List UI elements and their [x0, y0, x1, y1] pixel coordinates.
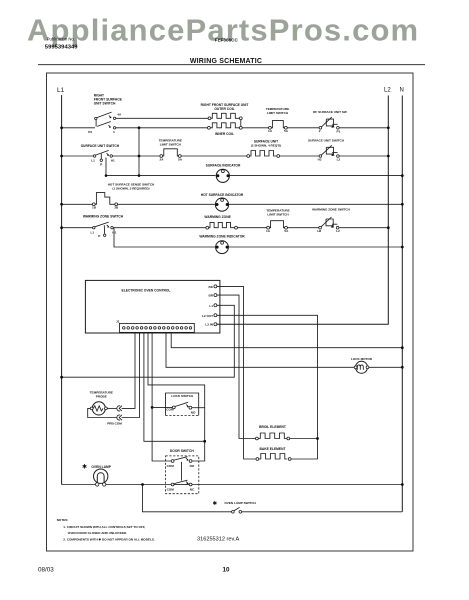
svg-text:OVEN LAMP SWITCH: OVEN LAMP SWITCH [224, 501, 256, 505]
wire row2 to limit switch [112, 155, 159, 157]
svg-text:P2: P2 [88, 130, 92, 134]
wire probe right [107, 407, 116, 409]
switch oven lamp switch S3 [213, 500, 257, 513]
wire row4b to N [228, 246, 402, 248]
svg-text:OUTER COIL: OUTER COIL [214, 107, 234, 111]
svg-text:4: 4 [113, 130, 115, 134]
heater RF surface unit inner coil [208, 123, 243, 136]
wire strip pin6 lock motor bus [166, 333, 354, 367]
svg-text:P: P [100, 163, 102, 167]
wire row1 upper to outer coil [116, 117, 209, 119]
node dot bottom bus left [141, 483, 144, 486]
switch RF surface unit switch (double pole) [88, 94, 122, 135]
node dot row1 x139 [138, 126, 141, 129]
node dot bus N [401, 346, 404, 349]
node dot L1 row3 [60, 203, 63, 206]
svg-text:L2: L2 [384, 88, 391, 94]
wire row4 to switch2 [287, 227, 319, 229]
lamp oven lamp DS1 [82, 464, 112, 487]
svg-text:WARMING ZONE SWITCH: WARMING ZONE SWITCH [312, 208, 351, 212]
svg-text:Publication No.: Publication No. [47, 37, 75, 42]
svg-text:SURFACE INDICATOR: SURFACE INDICATOR [206, 163, 241, 167]
svg-text:NO: NO [191, 410, 196, 414]
svg-text:LOCK MOTOR: LOCK MOTOR [351, 357, 373, 361]
node dot lock switch tap [151, 406, 154, 409]
node dot motor N [401, 366, 404, 369]
wire row2 to coil [181, 155, 247, 157]
svg-text:LOCK SWITCH: LOCK SWITCH [171, 394, 194, 398]
svg-text:L1: L1 [209, 304, 213, 308]
indicator surface indicator [206, 163, 241, 182]
wire probe left loop [88, 408, 117, 417]
svg-text:H1: H1 [111, 159, 115, 163]
wire row1 to L2 [339, 127, 388, 129]
switch warming zone switch (right) [312, 208, 351, 233]
svg-text:L2 OUT: L2 OUT [202, 314, 213, 318]
svg-text:BR: BR [209, 294, 214, 298]
svg-text:SURFACE UNIT SWITCH: SURFACE UNIT SWITCH [81, 144, 120, 148]
op-box electronic oven control U1 [85, 280, 220, 333]
wire strip pin3 to door no join [144, 333, 205, 441]
wire strip pin5 to lock and door com [152, 333, 171, 461]
heater bake element [256, 447, 291, 461]
wire row4b drop [114, 228, 215, 247]
heater broil element [256, 425, 290, 440]
svg-text:UNIT SWITCH: UNIT SWITCH [94, 101, 116, 105]
svg-text:L2: L2 [337, 157, 341, 161]
svg-text:(2 SHOWN, 4 REQ'D): (2 SHOWN, 4 REQ'D) [251, 144, 281, 148]
switch temperature limit switch row4 [266, 209, 290, 233]
svg-text:N: N [400, 88, 404, 94]
svg-text:BROIL ELEMENT: BROIL ELEMENT [259, 425, 286, 429]
svg-text:H1: H1 [112, 230, 116, 234]
switch surface unit switch row2 [81, 144, 120, 167]
motor lock motor M1 [351, 357, 373, 373]
wire lock no out [192, 407, 205, 409]
wire L1 pin to L1 rail [62, 305, 235, 377]
resistor temperature probe [90, 391, 123, 426]
svg-text:2. COMPONENTS WITH ✱ DO NOT: 2. COMPONENTS WITH ✱ DO NOT APPEAR ON AL… [63, 537, 155, 541]
svg-text:NC: NC [190, 488, 195, 492]
switch hot surface sense switch [92, 182, 155, 209]
wire row3 to indicator [118, 203, 216, 205]
wire row2 to switch2 [280, 155, 319, 157]
svg-text:WARMING ZONE INDICATOR: WARMING ZONE INDICATOR [199, 235, 245, 239]
switch RF surface unit sw [313, 110, 347, 133]
wire N rail [401, 96, 403, 512]
svg-text:COM: COM [167, 464, 175, 468]
svg-text:P1: P1 [337, 129, 341, 133]
svg-text:2: 2 [319, 129, 321, 133]
wire L2 OUT to elements common [217, 315, 318, 459]
svg-text:10: 10 [223, 567, 231, 574]
svg-text:INNER COIL: INNER COIL [215, 132, 234, 136]
wire junction drop x139 rows 1 to 2b [138, 128, 140, 176]
svg-text:OVEN DOOR CLOSED AND UNLOCKED.: OVEN DOOR CLOSED AND UNLOCKED. [68, 531, 127, 535]
svg-text:WIRING SCHEMATIC: WIRING SCHEMATIC [190, 58, 262, 65]
svg-text:NO: NO [190, 464, 195, 468]
node dot door no join [203, 440, 206, 443]
svg-text:WARMING ZONE SWITCH: WARMING ZONE SWITCH [83, 215, 124, 219]
wire row4 to limit switch [237, 227, 266, 229]
wire oven lamp switch row [143, 485, 232, 512]
switch temperature limit switch row1 [266, 107, 289, 133]
switch temperature limit switch row2 [159, 139, 183, 162]
heater warming zone coil [204, 215, 237, 229]
node dot L1 row4 [60, 226, 63, 229]
wire motor to N [369, 366, 403, 368]
heater RF surface unit outer coil [201, 103, 249, 120]
wire row2 to L2 [339, 155, 388, 157]
title rule [38, 64, 425, 66]
svg-text:✱: ✱ [213, 500, 218, 507]
svg-text:SURFACE UNIT SWITCH: SURFACE UNIT SWITCH [308, 139, 345, 143]
node dot row2b x139 [138, 174, 141, 177]
svg-text:L1: L1 [90, 230, 94, 234]
svg-text:L2 IN: L2 IN [205, 323, 213, 327]
wire strip pin4 to door no feed [148, 333, 205, 461]
wire row1 coils to limit switch [242, 127, 268, 129]
node dot row2b N [401, 174, 404, 177]
svg-text:COM: COM [166, 408, 174, 412]
svg-text:NOTES:: NOTES: [57, 518, 69, 522]
wire row1 lower to inner coil [116, 127, 208, 129]
wire L2 rail [217, 96, 388, 325]
notes block [57, 518, 155, 542]
wire L1 rail [61, 95, 63, 485]
svg-text:1. CIRCUIT SHOWN WITH ALL CON: 1. CIRCUIT SHOWN WITH ALL CONTROLS SET T… [63, 525, 145, 529]
wire BR to broil element [217, 295, 256, 438]
svg-text:BAKE ELEMENT: BAKE ELEMENT [259, 447, 285, 451]
svg-text:L2: L2 [336, 229, 340, 233]
wire row4 to coil [113, 227, 206, 229]
node dot row1 L2 [387, 126, 390, 129]
svg-text:H2: H2 [317, 229, 321, 233]
switch lock switch S1 [166, 393, 199, 416]
svg-text:WARMING ZONE: WARMING ZONE [204, 215, 231, 219]
wire coil join vertical [240, 120, 242, 127]
wire row3 from L1 [62, 203, 93, 205]
switch surface unit switch (right) [308, 139, 345, 162]
svg-text:ELECTRONIC OVEN CONTROL: ELECTRONIC OVEN CONTROL [122, 288, 171, 292]
node dot row4 L2 [387, 226, 390, 229]
node dot row4b N [401, 246, 404, 249]
wire row1 to RF switch [287, 127, 319, 129]
wire row4 from L1 [62, 227, 94, 229]
svg-text:LIMIT SWITCH: LIMIT SWITCH [160, 143, 182, 147]
heater surface unit coil [247, 140, 281, 158]
svg-text:RF SURFACE UNIT SW: RF SURFACE UNIT SW [313, 110, 347, 114]
svg-text:08/03: 08/03 [38, 566, 54, 573]
node dot row2 x139 [138, 155, 141, 158]
node dot L1 rail tap [60, 376, 63, 379]
indicator warming zone indicator [199, 235, 245, 254]
wire row2 from L1 [62, 155, 94, 157]
svg-text:PRB COM: PRB COM [107, 422, 122, 426]
wire main bottom bus L1 to N [62, 484, 96, 486]
wire strip pin7 relay bus to N [171, 333, 402, 348]
svg-text:PROBE: PROBE [96, 395, 107, 399]
connector probe plug top [117, 406, 122, 411]
wire lock com feed [152, 406, 172, 408]
node dot L1 row2 [60, 155, 63, 158]
wire strip pin2 to probe bottom [122, 333, 140, 418]
svg-text:LIMIT SWITCH: LIMIT SWITCH [267, 212, 289, 216]
node dot broil common [316, 437, 319, 440]
svg-text:COM: COM [167, 488, 175, 492]
wire BK to bake element [217, 286, 256, 459]
svg-text:HOT SURFACE INDICATOR: HOT SURFACE INDICATOR [201, 193, 244, 197]
svg-text:LIMIT SWITCH: LIMIT SWITCH [267, 111, 289, 115]
svg-text:✱: ✱ [82, 464, 87, 471]
svg-text:H2: H2 [318, 157, 322, 161]
node dot row2 L2 [387, 155, 390, 158]
wire row3 to N [229, 203, 403, 205]
node dot L1 row1 [60, 126, 63, 129]
svg-text:5995394349: 5995394349 [45, 45, 78, 51]
schematic border frame [47, 73, 414, 551]
svg-text:(1 SHOWN, 3 REQUIRED): (1 SHOWN, 3 REQUIRED) [112, 186, 149, 190]
node dot row3 N [401, 203, 404, 206]
svg-text:BK: BK [209, 285, 214, 289]
node dot row2b left [105, 174, 108, 177]
wire row2b drop from row2 switch [106, 158, 215, 176]
wire strip pin1 to probe top [122, 333, 135, 408]
switch warming zone switch [83, 215, 124, 238]
svg-text:P: P [98, 234, 100, 238]
svg-text:OVEN LAMP: OVEN LAMP [91, 465, 111, 469]
svg-text:L1: L1 [91, 159, 95, 163]
indicator hot surface indicator [201, 193, 244, 211]
svg-text:FEF366CC: FEF366CC [215, 38, 239, 43]
wire row2b to N [229, 175, 402, 177]
svg-text:J1: J1 [116, 320, 120, 324]
svg-text:316255312 rev.A: 316255312 rev.A [197, 537, 239, 543]
wire broil right to common [290, 438, 318, 440]
node dot bottom bus N [401, 483, 404, 486]
svg-text:DOOR SWITCH: DOOR SWITCH [170, 449, 194, 453]
switch door switch S2 [166, 449, 199, 494]
wire row4 to L2 [339, 227, 388, 229]
connector terminal strip J1 [120, 323, 195, 332]
wire row1 bus from L1 [62, 127, 95, 129]
connector probe plug bottom [117, 415, 122, 420]
svg-text:L1: L1 [57, 87, 65, 94]
